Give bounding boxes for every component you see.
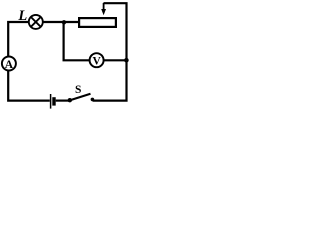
ammeter A1 <box>2 57 16 71</box>
wire: battery to switch pivot <box>56 99 69 101</box>
node junction dot (voltmeter tap, top) <box>62 20 66 24</box>
wire: switch to right rail, up right side, top run to slider <box>93 3 127 100</box>
voltmeter V1 <box>90 53 104 67</box>
wire: voltmeter branch (down then right) <box>64 22 90 60</box>
wire: voltmeter right to right rail <box>104 59 127 61</box>
wire: top-left from lamp to left rail down to ammeter <box>8 22 28 56</box>
wire: lamp right to rheostat left <box>43 21 79 23</box>
resistor box R1 (rheostat body) <box>79 18 116 27</box>
lamp L1 (circle with X) <box>29 15 43 29</box>
svg-text:A: A <box>5 59 14 71</box>
rheostat slider arrow <box>101 3 106 15</box>
switch S (pivot dot, lever, terminal dot) <box>68 94 95 103</box>
node junction dot (voltmeter right, on right rail) <box>124 58 129 63</box>
svg-text:V: V <box>92 56 101 68</box>
svg-text:S: S <box>75 84 81 96</box>
svg-text:L: L <box>17 8 27 24</box>
battery B1 (cell: long thin + short thick plates) <box>51 94 54 109</box>
wire: left rail below ammeter to battery <box>8 71 50 101</box>
